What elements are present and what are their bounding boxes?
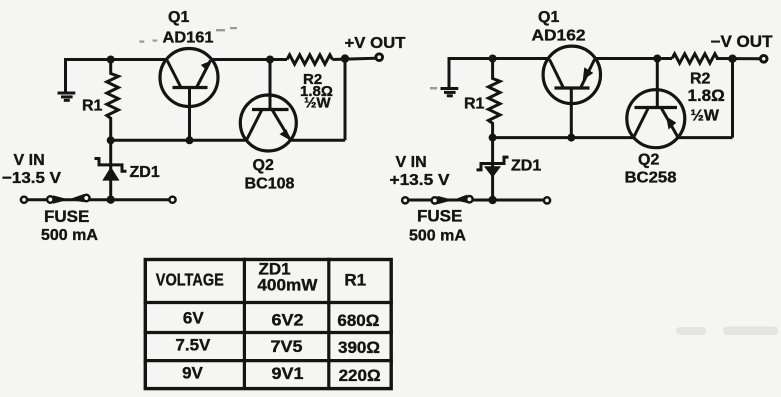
svg-text:Q2: Q2 <box>253 157 274 174</box>
wire bottom rail with fuse (right) <box>408 199 544 202</box>
junction Q1 base / bottom wire (right) <box>567 134 575 142</box>
junction Q1 base / bottom wire <box>186 136 194 144</box>
node R1 top (right) <box>489 55 497 63</box>
transistor Q1 base bar (right) <box>555 86 590 89</box>
wire R2 to output node (right) <box>716 57 761 60</box>
svg-text:220Ω: 220Ω <box>339 366 381 385</box>
svg-text:9V1: 9V1 <box>272 364 304 383</box>
svg-text:AD161: AD161 <box>163 30 214 47</box>
svg-text:Q2: Q2 <box>638 152 659 169</box>
transistor Q1 collector diagonal <box>167 61 181 88</box>
svg-text:FUSE: FUSE <box>44 207 89 226</box>
resistor R2 <box>287 55 333 64</box>
resistor R1 (right) <box>488 59 500 138</box>
table outer border <box>145 260 391 389</box>
resistor R2 (right) <box>672 54 718 63</box>
transistor Q2 emitter arrow <box>280 129 291 140</box>
wire output node down (right) <box>731 59 734 138</box>
fuse F1 left cone (right) <box>438 196 454 204</box>
svg-text:1.8Ω: 1.8Ω <box>688 86 725 105</box>
zener ZD1 anode triangle (right) <box>484 166 501 177</box>
svg-text:500 mA: 500 mA <box>41 227 98 244</box>
svg-text:R2: R2 <box>690 71 711 88</box>
fuse F1 right cone (right) <box>453 195 467 203</box>
svg-text:−V OUT: −V OUT <box>711 33 773 51</box>
terminal +V OUT <box>376 54 383 61</box>
terminal bottom right <box>169 197 175 203</box>
node R1 top <box>107 56 115 64</box>
transistor Q2 emitter diagonal (right) <box>661 108 678 138</box>
transistor Q2 emitter diagonal <box>272 110 290 140</box>
transistor Q1 collector diagonal (right) <box>550 60 564 89</box>
zener ZD1 anode triangle <box>102 167 119 181</box>
transistor Q2 collector diagonal <box>247 110 262 140</box>
svg-text:400mW: 400mW <box>257 275 318 294</box>
transistor Q2 base bar (right) <box>635 106 678 109</box>
wire top rail left segment (ground to Q1 collector) <box>66 60 167 92</box>
svg-text:Q1: Q1 <box>538 9 559 26</box>
transistor Q1 emitter arrow (right, PNP) <box>583 67 594 80</box>
transistor Q1 circle (right) <box>543 46 600 103</box>
transistor Q2 circle (right) <box>627 90 685 148</box>
svg-text:R1: R1 <box>82 98 103 115</box>
svg-text:390Ω: 390Ω <box>338 338 380 357</box>
zener ZD1 lead (right) <box>491 138 494 200</box>
transistor Q1 emitter diagonal (right) <box>581 60 595 89</box>
svg-text:6V2: 6V2 <box>272 310 304 329</box>
wire R2 to output node <box>333 58 376 59</box>
svg-text:+V OUT: +V OUT <box>345 35 406 52</box>
terminal -V OUT <box>760 56 767 63</box>
svg-text:R1: R1 <box>344 271 366 290</box>
smudge artifact left of ground <box>430 87 437 89</box>
wire bottom rail (right, R1 to Q2 collector) <box>493 136 634 139</box>
svg-text:½W: ½W <box>691 108 720 125</box>
transistor Q2 base lead (right) <box>656 59 659 108</box>
wire top rail mid segment (Q1 to R2) <box>595 57 672 60</box>
svg-text:R1: R1 <box>464 96 485 113</box>
fuse F1 right ring <box>83 195 89 201</box>
wire output node down <box>344 59 347 141</box>
svg-text:ZD1: ZD1 <box>130 164 160 181</box>
junction fuse / zener (right) <box>488 196 496 204</box>
svg-text:FUSE: FUSE <box>417 207 462 226</box>
svg-text:½W: ½W <box>304 95 332 112</box>
fuse F1 left ring <box>47 196 53 202</box>
fuse F1 left cone <box>53 195 69 203</box>
transistor Q2 circle <box>240 95 296 151</box>
svg-text:680Ω: 680Ω <box>337 311 379 330</box>
zener ZD1 cathode bar <box>95 159 127 172</box>
svg-text:BC108: BC108 <box>245 176 295 193</box>
resistor R1 <box>107 60 119 141</box>
junction ZD1 top <box>107 136 115 144</box>
svg-text:500 mA: 500 mA <box>409 228 466 245</box>
svg-text:AD162: AD162 <box>532 28 586 45</box>
svg-text:7V5: 7V5 <box>271 337 303 356</box>
wire Q2 emitter to right vertical <box>290 139 345 142</box>
svg-text:VOLTAGE: VOLTAGE <box>156 270 224 290</box>
smudge artifact near AD161 <box>139 27 237 43</box>
fuse F1 right cone <box>69 194 85 202</box>
node output (right) <box>728 55 736 63</box>
transistor Q1 circle <box>160 49 218 107</box>
wire Q2 emitter to right vertical (right) <box>678 136 733 139</box>
svg-text:9V: 9V <box>182 363 203 382</box>
wire bottom rail with fuse <box>28 198 170 201</box>
transistor Q2 collector diagonal (right) <box>634 108 649 138</box>
terminal input left <box>21 197 27 203</box>
svg-text:6V: 6V <box>183 308 204 327</box>
table column divider 1 <box>243 258 246 389</box>
wire top rail mid segment (Q1 emitter to R2) <box>212 58 288 61</box>
svg-text:7.5V: 7.5V <box>175 336 211 355</box>
wire top rail left segment (ground to Q1) <box>449 59 548 88</box>
table row divider 2 <box>144 331 393 334</box>
transistor Q2 base bar <box>252 108 289 111</box>
transistor Q1 emitter diagonal <box>197 61 211 88</box>
svg-text:ZD1: ZD1 <box>511 158 541 175</box>
table row divider 3 <box>144 359 393 362</box>
junction fuse / zener <box>107 196 115 204</box>
table row divider 1 <box>144 301 393 304</box>
table column divider 2 <box>327 258 330 389</box>
transistor Q1 emitter arrow <box>201 60 212 71</box>
fuse F1 right ring (right) <box>466 196 472 202</box>
ground <box>58 93 76 100</box>
junction ZD1 top (right) <box>489 134 497 142</box>
fuse F1 left ring (right) <box>432 197 438 203</box>
zener ZD1 cathode bar (right) <box>477 157 509 170</box>
svg-text:+13.5 V: +13.5 V <box>390 172 450 189</box>
ground (right) <box>441 89 459 96</box>
wire bottom rail (R1 bottom to Q2 collector) <box>111 139 247 142</box>
transistor Q1 base bar <box>173 86 208 89</box>
transistor Q1 base lead <box>188 88 191 141</box>
scan smudges right of table <box>676 327 778 336</box>
transistor Q2 emitter arrow (right, PNP) <box>666 116 676 129</box>
terminal bottom right (right circuit) <box>544 197 550 203</box>
svg-text:−13.5 V: −13.5 V <box>2 170 61 187</box>
transistor Q1 base lead (right) <box>570 88 573 138</box>
zener ZD1 lead <box>109 140 112 199</box>
svg-text:BC258: BC258 <box>625 170 677 187</box>
svg-text:V IN: V IN <box>396 154 427 171</box>
node Q2 base tap <box>266 56 274 64</box>
node Q2 base tap (right) <box>653 55 661 63</box>
node output <box>341 54 349 62</box>
transistor Q2 base lead <box>269 60 272 110</box>
svg-text:V IN: V IN <box>14 152 45 169</box>
terminal input left (right circuit) <box>402 197 408 203</box>
svg-text:Q1: Q1 <box>168 9 189 26</box>
